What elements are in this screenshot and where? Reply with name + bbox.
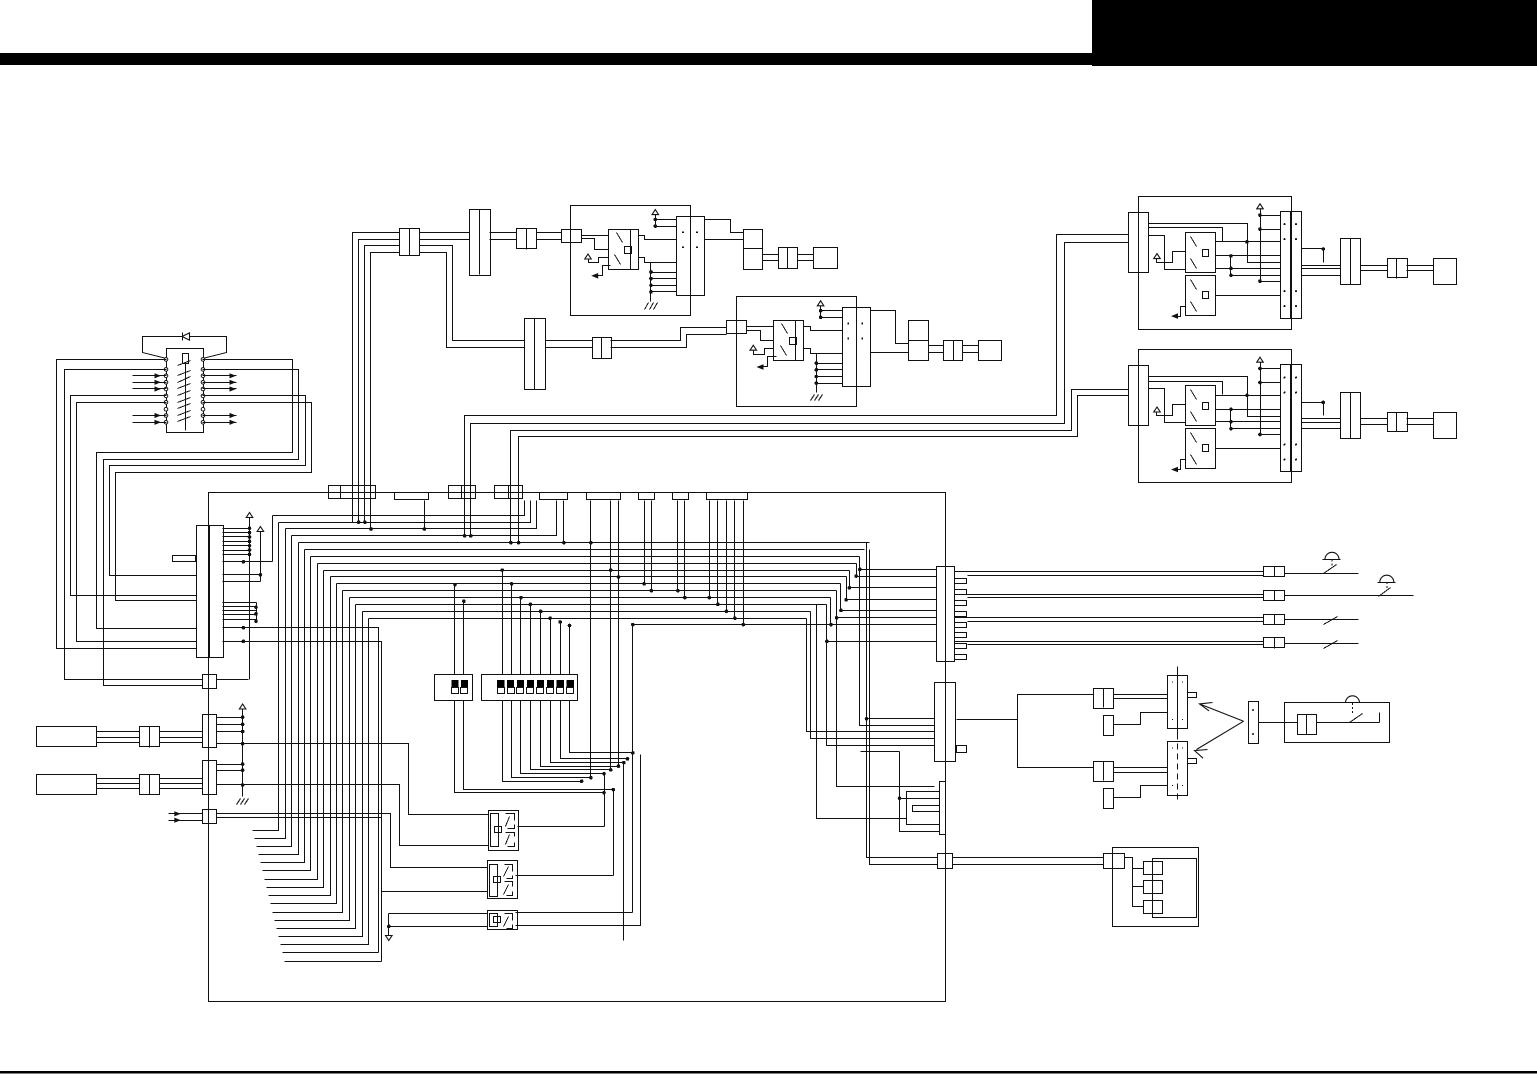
bus junction dots <box>357 520 521 544</box>
CN14 pin wires <box>217 762 489 845</box>
rows into board connector CN12 <box>817 605 935 819</box>
connector J41 <box>1264 567 1285 577</box>
long wires board to relay units C and D <box>465 235 1129 543</box>
board connector CN7 <box>639 493 655 500</box>
bundle wires from board connector CN10 <box>223 626 382 962</box>
wires J17 to relay unit B <box>611 328 727 348</box>
board connector CN9 <box>707 493 748 500</box>
board connector CN10 <box>173 526 224 658</box>
SW2 wires <box>500 568 634 783</box>
cable P1 wires <box>97 732 140 743</box>
relay unit C (right top relay module) <box>1129 197 1302 330</box>
output wire rows from CN11 <box>955 572 1264 645</box>
connector J17 <box>593 338 612 359</box>
connector J46 <box>1094 689 1114 709</box>
sensor block B1 (bottom right) <box>1113 848 1199 927</box>
wire loops right of S1 <box>97 360 312 686</box>
DIP switch block SW2 <box>482 675 578 701</box>
wires to sensor modules <box>1114 695 1168 798</box>
connector J12 <box>470 210 491 276</box>
relay K1 <box>489 811 519 851</box>
CN15 arrow inputs and wires <box>169 811 488 891</box>
connector J21 <box>1388 259 1408 279</box>
board connector CN16 <box>203 675 217 689</box>
wires J19 to load M2 <box>963 346 979 353</box>
interlock switch input/output arrows <box>133 373 237 425</box>
DIP switch block SW1 <box>435 675 473 701</box>
thermostat TH2 <box>1285 575 1414 596</box>
board connector CN14 <box>203 761 217 795</box>
wires relay unit C to J20 <box>1302 247 1341 275</box>
wires CN12 to sensor connectors <box>957 695 1094 768</box>
relay K3 <box>488 911 518 930</box>
wires J18 to J19 <box>929 346 944 353</box>
wires relay unit A to J14 <box>705 220 744 240</box>
connector J43 <box>1264 615 1285 625</box>
connector J15 <box>779 248 798 269</box>
board connector CN15 <box>203 810 217 824</box>
CN16 wires <box>104 680 249 686</box>
wires J16 to J17 <box>546 341 593 348</box>
pointer arrows <box>1195 703 1244 759</box>
connector J49 <box>1104 789 1114 809</box>
load box M1 <box>814 248 838 269</box>
interlock switch block S1 diode loop <box>143 333 227 359</box>
board connector CN13 <box>203 715 217 748</box>
wires relay unit D to J22 <box>1302 401 1341 429</box>
wires J15 to load M1 <box>798 255 814 261</box>
CN13 pin wires <box>217 715 489 814</box>
heater element H1 (meander) <box>898 752 946 835</box>
connector J48 <box>1094 762 1114 782</box>
sensor module U2 <box>1168 734 1197 804</box>
connector J13 <box>517 229 537 250</box>
header title block (black) <box>1092 0 1537 66</box>
board connector CN3 <box>449 486 476 499</box>
relay unit D (right lower relay module) <box>1129 350 1302 483</box>
relay unit A (power relay module) <box>562 206 705 316</box>
board connector CN2 <box>395 493 429 500</box>
wires J23 to load M4 <box>1407 419 1434 425</box>
sensor module U1 <box>1168 667 1197 734</box>
wires J21 to load M3 <box>1407 266 1434 271</box>
connector J47 <box>1104 716 1114 736</box>
switch-to-relay verticals <box>605 625 633 941</box>
connector tap wires into board <box>423 501 746 778</box>
wires J31 to CN13 <box>160 732 203 743</box>
cable assembly box P2 <box>37 775 97 795</box>
wires J11 to J12 <box>420 233 525 348</box>
wires CN17 to J45 <box>953 858 1104 865</box>
load box M3 <box>1434 259 1457 285</box>
connector J18 <box>909 321 929 361</box>
bundle right-side drops <box>631 543 938 865</box>
connector J11 <box>400 229 420 256</box>
interlock switch S1 contacts <box>164 358 205 425</box>
board connector CN8 <box>673 493 689 500</box>
thermal fuse F2 <box>1285 641 1359 649</box>
connector J23 <box>1388 413 1408 432</box>
board connector CN17 <box>938 854 953 869</box>
relay K3 left wires with chassis arrow <box>386 914 488 941</box>
thermal fuse F1 <box>1285 617 1359 625</box>
connector J14 <box>744 230 763 270</box>
wire loops left of S1 <box>57 360 203 680</box>
board connector CN4 <box>495 486 523 499</box>
board connector CN5 <box>540 493 568 500</box>
interlock switch block S1 body <box>167 349 204 433</box>
main wire bundle (board bus) <box>253 501 870 945</box>
connector J20 <box>1341 239 1361 285</box>
connector J19 <box>944 341 963 361</box>
thermostat assembly TH3 <box>1259 696 1390 743</box>
connector J31 <box>140 727 160 748</box>
wires J32 to CN14 <box>160 779 203 789</box>
connector J32 <box>140 775 160 795</box>
connector CN10 pin wires <box>223 513 273 680</box>
connector J50 <box>1249 702 1259 744</box>
wires J13 to relay unit A <box>537 233 562 240</box>
relay K2 <box>488 861 518 899</box>
board connector CN1 <box>329 486 376 499</box>
load box M4 <box>1434 413 1457 439</box>
connector J45 <box>1104 854 1125 869</box>
signal ground rail with triangle <box>237 704 249 805</box>
wires J20 to J21 <box>1361 266 1388 271</box>
wires J22 to J23 <box>1361 419 1388 425</box>
wires J14 to J15 <box>763 255 779 261</box>
connector J22 <box>1341 393 1361 439</box>
SW1 wires <box>453 583 615 795</box>
wires J12 to J13 <box>490 233 517 240</box>
wires relay unit B to J18 <box>871 311 909 353</box>
connector J16 <box>525 319 546 390</box>
board connector CN12 <box>935 683 967 762</box>
relay output wires <box>516 755 641 926</box>
footer rule <box>0 1071 1537 1074</box>
connector J44 <box>1264 638 1285 649</box>
thermostat TH1 <box>1285 552 1359 573</box>
relay unit B (power relay module) <box>727 297 871 407</box>
cable P2 wires <box>97 779 140 789</box>
bus wires from board to top chain <box>353 233 400 529</box>
header rule bar <box>0 53 1092 65</box>
cable assembly box P1 <box>37 727 97 747</box>
connector J42 <box>1264 591 1285 601</box>
board connector CN11 <box>937 567 967 663</box>
main PCB outline <box>209 493 946 1002</box>
board connector CN6 <box>587 493 621 500</box>
load box M2 <box>979 341 1002 361</box>
